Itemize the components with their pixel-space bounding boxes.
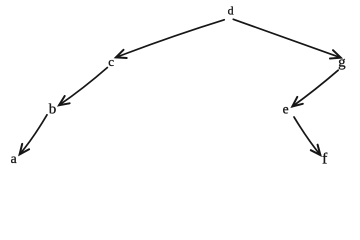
wire edge b to a <box>20 115 47 155</box>
svg-text:g: g <box>338 54 346 70</box>
wire edge d to c <box>116 20 224 58</box>
wire edge g to e <box>292 70 338 106</box>
svg-text:b: b <box>49 102 57 118</box>
wire edge d to g <box>233 19 340 58</box>
svg-text:a: a <box>11 151 17 166</box>
svg-text:e: e <box>283 102 289 117</box>
svg-text:f: f <box>322 151 328 168</box>
svg-text:d: d <box>228 4 234 18</box>
wire edge c to b <box>59 68 107 106</box>
svg-text:c: c <box>108 54 114 69</box>
wire edge e to f <box>294 117 320 155</box>
